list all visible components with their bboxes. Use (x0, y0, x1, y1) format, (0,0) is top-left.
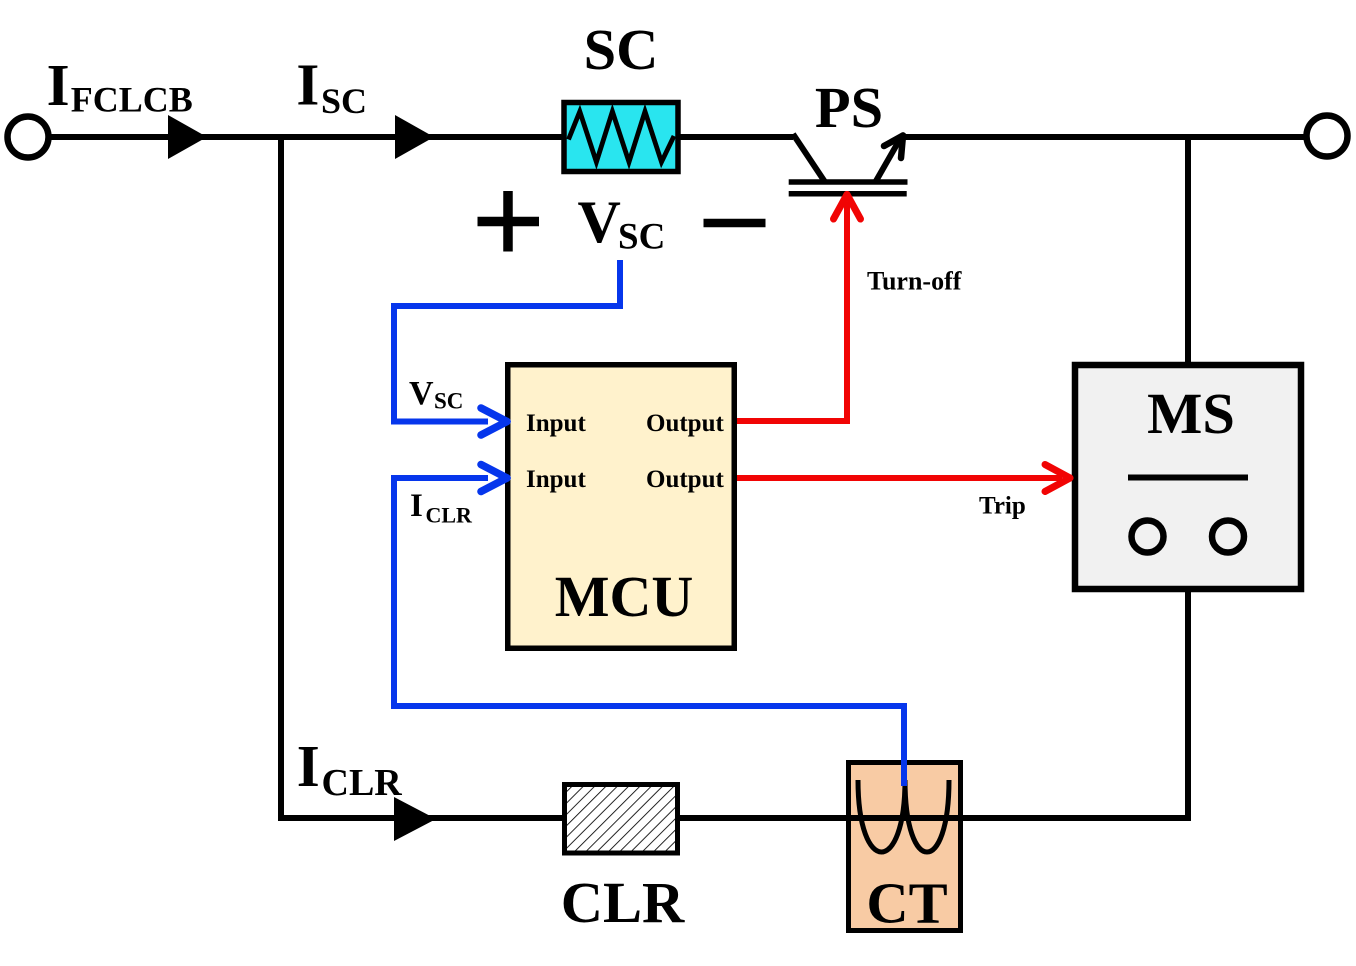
resistor SC (564, 103, 678, 172)
svg-text:CLR: CLR (322, 762, 403, 804)
svg-text:SC: SC (321, 81, 367, 121)
svg-text:Input: Input (526, 466, 586, 493)
svg-text:PS: PS (815, 75, 883, 140)
current transformer CT body (849, 763, 961, 931)
svg-text:CT: CT (866, 871, 947, 936)
arrowhead: red trip into MS (1045, 465, 1070, 492)
svg-text:CLR: CLR (426, 503, 474, 528)
terminal: left port (8, 117, 49, 158)
svg-text:FCLCB: FCLCB (71, 80, 193, 120)
arrowhead: ISC current direction (395, 115, 434, 159)
svg-text:V: V (409, 375, 434, 412)
svg-text:CLR: CLR (561, 870, 685, 935)
svg-text:MS: MS (1147, 381, 1235, 446)
wire: blue ICLR sense line from CT (394, 478, 904, 786)
svg-text:Output: Output (646, 466, 724, 493)
mechanical switch MS box (1075, 365, 1301, 589)
svg-text:SC: SC (618, 217, 665, 258)
svg-text:SC: SC (584, 17, 659, 82)
arrowhead: ICLR current direction (394, 797, 436, 841)
MCU box (508, 365, 735, 649)
CT winding curves (858, 780, 949, 852)
svg-text:V: V (578, 189, 621, 255)
svg-text:Trip: Trip (979, 493, 1026, 520)
svg-text:I: I (296, 52, 319, 118)
svg-text:I: I (410, 488, 423, 524)
power switch PS symbol (789, 134, 908, 194)
wire: bottom branch left segment (278, 815, 565, 821)
arrowhead: IFCLCB current direction (168, 115, 207, 159)
arrowhead: blue VSC into MCU input 1 (481, 408, 507, 435)
svg-text:I: I (297, 733, 320, 799)
arrowhead: red turn-off into PS gate (834, 195, 861, 220)
svg-text:MCU: MCU (555, 564, 694, 629)
svg-text:I: I (47, 52, 70, 118)
svg-text:Output: Output (646, 410, 724, 437)
arrowhead: blue ICLR into MCU input 2 (481, 465, 507, 492)
terminal: right port (1307, 116, 1348, 157)
svg-text:SC: SC (434, 389, 463, 414)
resistor CLR (565, 785, 678, 854)
wire: right branch top (bus to MS) (1185, 137, 1191, 365)
wire: blue VSC sense line (394, 260, 620, 422)
wire: main bus left segment (46, 134, 793, 140)
wire: red turn-off command (737, 202, 847, 421)
svg-text:Turn-off: Turn-off (867, 267, 962, 296)
MS contact circle left (1132, 521, 1164, 553)
MS contact bar (1128, 475, 1248, 481)
label +VSC- polarity: plus sign (478, 217, 540, 227)
svg-text:Input: Input (526, 410, 586, 437)
label +VSC- polarity: minus sign (704, 219, 766, 228)
wire: red trip command (737, 475, 1062, 481)
MS contact circle right (1212, 521, 1244, 553)
wire: left shunt branch vertical (278, 137, 284, 821)
wire: bottom branch right segment and riser to MS (678, 592, 1188, 818)
wire: main bus right segment (903, 134, 1310, 140)
